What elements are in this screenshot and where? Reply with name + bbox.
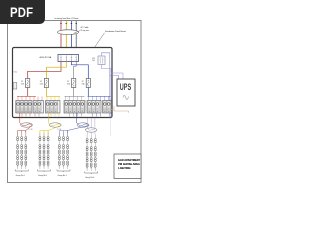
wire UPS input branch 1 (110, 76, 119, 80)
wire feeder group1 (19, 113, 21, 123)
node lamp stubs col3 (59, 131, 67, 137)
wire UPS purple feed 2 (102, 65, 112, 118)
wire wave group1 (20, 123, 32, 133)
breaker MCB3 (72, 79, 76, 88)
breaker MCB1 (26, 79, 30, 88)
node lamp stubs col1 (18, 131, 26, 137)
wire feeder group3 (76, 113, 78, 123)
wire N phase to MCB3 (74, 62, 77, 97)
strip MCB bank 5 (103, 101, 112, 114)
bus R phase (17, 96, 42, 100)
wire R phase to MCB1 (28, 62, 61, 97)
wire Y phase to MCB2 (47, 62, 67, 97)
wire UPS input branch 2 (111, 73, 123, 79)
bus Y phase (46, 96, 60, 100)
lamp ladder column2 (39, 133, 49, 170)
breaker ACB main incomer (58, 55, 79, 62)
wire feeder group2 (47, 113, 49, 123)
wire incoming N neutral (75, 21, 77, 55)
wire wave group2 (48, 123, 61, 133)
breaker MCB4 (86, 79, 90, 88)
wire drops below strip1 (22, 113, 39, 117)
wire drops below strip3 (70, 113, 82, 117)
wire leader to panel (95, 33, 105, 48)
node UPS symbol (123, 95, 129, 99)
node lamp stubs col2 (40, 131, 48, 137)
cable ellipse group1 (21, 123, 33, 127)
node feeder tick marks (60, 23, 77, 25)
svg-text:UPS: UPS (120, 81, 131, 92)
bracket group1 (15, 170, 28, 173)
wire feeder group4 (88, 118, 95, 135)
page background (0, 0, 149, 198)
strip MCB bank 3 (64, 101, 85, 114)
wire B phase to MCB4 (71, 62, 88, 97)
breaker MCB2 (44, 79, 48, 88)
bus B phase (88, 96, 111, 100)
bracket group4 (85, 172, 98, 175)
bracket group3 (57, 170, 70, 173)
svg-text:Incoming from Main LT Room: Incoming from Main LT Room (55, 18, 79, 20)
UPS unit U1 (117, 79, 135, 106)
wire leader to cable ellipse (74, 31, 80, 34)
wire wave group4 (88, 128, 96, 131)
wire incoming Y phase (65, 21, 67, 55)
title block (114, 154, 141, 179)
svg-text:PDF: PDF (10, 5, 33, 20)
bracket group2 (38, 170, 51, 173)
cable ellipse group3 (77, 123, 89, 127)
wire UPS purple feed 1 (102, 53, 110, 118)
panel board enclosure (13, 48, 113, 118)
svg-text:95 sq mm: 95 sq mm (81, 30, 90, 32)
wire incoming R phase (60, 21, 62, 55)
strip MCB bank 1b (33, 101, 44, 114)
wire incoming B phase (70, 21, 72, 55)
strip MCB bank 1a (16, 101, 32, 114)
strip MCB bank 2 (46, 101, 61, 114)
strip MCB bank 4 (87, 101, 101, 114)
drawing border frame (8, 21, 142, 183)
cable ellipse group4 (86, 128, 97, 132)
wire drops below strip2 (51, 113, 59, 117)
wire wave group3 (68, 123, 89, 133)
lamp ladder column3 (58, 133, 68, 170)
cable ellipse group2 (49, 123, 61, 127)
svg-text:4C Cable: 4C Cable (81, 27, 89, 29)
wire drops below strip4 (93, 113, 101, 117)
breaker UPS feed (98, 56, 105, 65)
node neutral bar (13, 83, 17, 90)
wire UPS output (114, 106, 129, 113)
wire purple stub below panel (109, 118, 111, 136)
cable designation ellipse (58, 30, 79, 35)
lamp ladder column4 (86, 135, 96, 172)
PDF badge (0, 0, 45, 24)
bus N slate (65, 96, 85, 100)
wire UPS output left branch (104, 109, 115, 111)
lamp ladder column1 (17, 133, 27, 170)
